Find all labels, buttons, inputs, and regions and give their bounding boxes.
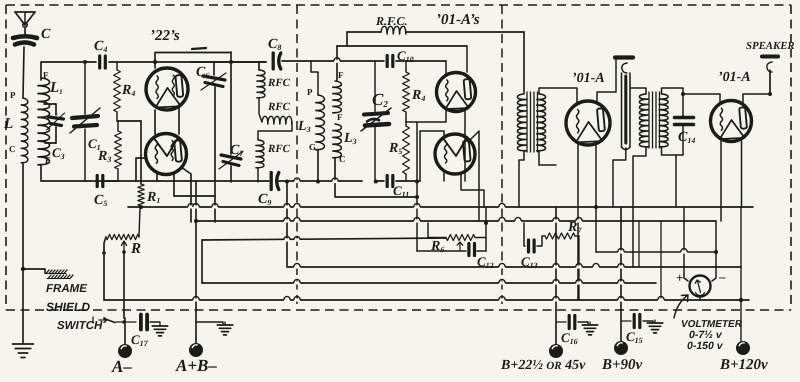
resistor R6 <box>446 235 475 252</box>
svg-text:’22’s: ’22’s <box>150 28 180 44</box>
wire vertical x202 <box>201 240 203 283</box>
tube U6 ('01-A audio2) <box>711 101 752 142</box>
transformer T1 core <box>527 92 538 152</box>
shield divider between RF and detector (dashed) <box>296 5 298 310</box>
capacitor C5 <box>97 176 103 187</box>
label C2 <box>372 90 388 109</box>
capacitor C8 <box>273 53 281 69</box>
shield bottom (dashed) <box>6 309 791 311</box>
wire plate bus to C8 <box>190 61 266 63</box>
wire C2 connections <box>374 61 376 181</box>
label RFC1 <box>267 77 291 89</box>
tube U1 ('22 #1) <box>146 68 188 110</box>
label 0-150v <box>687 340 724 352</box>
wire L1 bottom <box>41 165 86 181</box>
svg-text:C: C <box>339 154 346 164</box>
phone plug P1 <box>615 58 633 150</box>
label L3 (primary) <box>297 119 311 134</box>
coil L3 secondary upper <box>333 81 342 113</box>
rf choke RFC3 <box>256 122 292 182</box>
transformer T2 core <box>649 92 660 148</box>
ground (C17) <box>152 323 167 336</box>
wire R wiper down <box>123 252 125 318</box>
resistor R4 <box>114 62 121 121</box>
terminal A+B- <box>189 343 203 357</box>
wire C12 rail <box>440 207 488 251</box>
capacitor C15 <box>621 315 640 328</box>
label R6 <box>430 239 444 254</box>
label C7 <box>230 143 244 158</box>
wire speaker hot <box>769 70 771 94</box>
terminal B+22 <box>549 344 563 358</box>
label R.F.C. (top) <box>375 14 407 28</box>
svg-text:RFC: RFC <box>267 77 291 89</box>
potentiometer R <box>106 208 140 240</box>
label FRAME <box>46 283 87 295</box>
junction B+120/bus G <box>739 298 743 302</box>
ground (C15) <box>647 320 662 333</box>
ground (C16) <box>582 322 597 335</box>
rf choke RFC4 (top) <box>381 26 406 34</box>
capacitor C10 <box>387 56 393 67</box>
wire R3 bottom to C5 bus <box>117 180 119 182</box>
resistor R1 <box>138 184 144 209</box>
label '01-A's <box>436 12 480 28</box>
capacitor C17 <box>141 315 147 330</box>
wire C to coil L <box>23 47 24 98</box>
shield border top (dashed) <box>6 4 791 6</box>
wire C15 ground <box>643 321 653 322</box>
label B+22.5 or 45v <box>500 358 586 373</box>
voltmeter M1 <box>690 276 711 297</box>
svg-text:C: C <box>9 144 16 154</box>
ground (A+B-) <box>217 322 232 335</box>
capacitor C2 (variable) <box>361 108 391 131</box>
label R4 <box>121 83 135 98</box>
label L1 <box>49 80 63 96</box>
wire C13 left lead <box>524 223 528 246</box>
capacitor C11 <box>387 176 393 187</box>
label R3 <box>97 149 111 164</box>
svg-text:F: F <box>338 70 344 80</box>
wire U5 connections <box>539 88 616 300</box>
wire A+B- drop <box>195 181 197 344</box>
terminal B+90 <box>614 341 628 355</box>
transformer T1 secondary <box>537 94 546 151</box>
shield border right (dashed) <box>790 5 792 310</box>
potentiometer R arrow <box>121 241 126 254</box>
label F (L3 sec mid) <box>337 112 343 122</box>
wire C6 bottom link <box>174 195 215 197</box>
rf choke RFC1 <box>257 62 265 98</box>
wire T2 connections <box>630 88 685 267</box>
svg-text:P: P <box>10 90 16 100</box>
label 0-7.5v <box>689 329 723 341</box>
svg-text:P: P <box>307 87 313 97</box>
wire drop x621 (B+90) <box>620 207 622 341</box>
wire C11 bus <box>375 180 420 182</box>
wire L1 top to bus <box>41 62 84 80</box>
label SWITCH <box>57 320 103 332</box>
label '22's <box>150 28 206 49</box>
capacitor C (antenna) <box>13 36 37 44</box>
label C4 <box>94 39 107 54</box>
rf choke RFC2 (horizontal) <box>259 98 292 124</box>
svg-text:B+22½ OR 45v: B+22½ OR 45v <box>500 358 586 373</box>
svg-text:F: F <box>337 112 343 122</box>
wire antenna to C <box>24 27 26 34</box>
coil L3 primary <box>316 95 325 150</box>
wire tube U1 connections <box>117 53 231 185</box>
svg-text:SWITCH: SWITCH <box>57 320 103 332</box>
label C (L3 bottom) <box>339 154 346 164</box>
shield divider between detector and audio (dashed) <box>501 5 503 310</box>
capacitor C7 (variable) <box>219 52 242 182</box>
wire bus D (y267) <box>288 266 741 268</box>
wire voltmeter bottom link <box>699 297 701 300</box>
svg-text:–: – <box>718 269 726 284</box>
wire antenna ground column <box>22 269 24 342</box>
tube U2 ('22 #2) <box>146 134 187 175</box>
label C12 <box>477 254 494 270</box>
label C5 <box>94 193 107 208</box>
label + (voltmeter) <box>676 270 683 285</box>
wire C14 connections <box>676 94 683 155</box>
wire bus B (y221) <box>194 219 716 223</box>
label A+B- <box>175 356 217 375</box>
label P (L3) <box>307 87 313 97</box>
wire drop x741 (B+120) <box>740 207 742 341</box>
switch S1 <box>104 319 136 324</box>
capacitor C13 <box>529 240 535 252</box>
terminal B+120 <box>736 341 750 355</box>
label F (L1 top) <box>43 70 49 80</box>
svg-text:A+B–: A+B– <box>175 356 217 375</box>
label C8 <box>268 37 281 52</box>
wire hop bumps <box>188 58 687 300</box>
capacitor C9 <box>271 173 279 190</box>
coil L <box>21 98 28 163</box>
svg-text:L: L <box>3 116 13 132</box>
wire L to ground bus <box>22 163 24 269</box>
label VOLTMETER <box>681 319 743 330</box>
capacitor C3 (variable) <box>47 104 65 143</box>
wire C3 <box>44 104 56 143</box>
svg-text:’01-A: ’01-A <box>718 70 751 85</box>
svg-text:F: F <box>45 155 51 165</box>
label '01-A (tube6) <box>718 70 751 85</box>
wire C8 right <box>282 60 311 62</box>
shield border left (dashed) <box>5 5 7 310</box>
label C6 <box>196 65 209 80</box>
svg-text:A–: A– <box>111 357 132 376</box>
svg-text:B+120v: B+120v <box>719 357 768 373</box>
wire U3 connections <box>406 46 467 181</box>
label F (L3 sec top) <box>338 70 344 80</box>
wire plug1 to bus <box>613 60 626 207</box>
wire grid return bus y181 <box>86 180 340 182</box>
label C15 <box>626 329 643 345</box>
transformer T1 primary <box>517 94 526 151</box>
wire drop x639 <box>638 221 640 267</box>
label A- <box>111 357 132 376</box>
wire vertical x288 (C9 drop) <box>286 181 288 267</box>
svg-text:0-150 v: 0-150 v <box>687 340 724 352</box>
coil L3 secondary lower <box>333 124 342 158</box>
svg-text:C: C <box>41 27 51 42</box>
label C17 <box>131 332 149 348</box>
capacitor C6 (variable) <box>201 62 226 196</box>
tube U5 ('01-A audio1) <box>566 101 610 145</box>
wire drop x579 <box>578 236 580 300</box>
terminal A- <box>118 344 132 358</box>
wire A+B- ground stub <box>196 322 223 324</box>
resistor R3 <box>115 121 122 181</box>
label L3 (secondary) <box>343 131 357 146</box>
frame ground symbol <box>45 270 73 279</box>
label RFC2 <box>267 101 291 113</box>
svg-text:F: F <box>43 70 49 80</box>
label C <box>41 27 51 42</box>
capacitor C14 <box>675 118 694 125</box>
label R <box>130 241 141 257</box>
transformer T2 primary <box>639 94 648 147</box>
ground (antenna) <box>13 341 34 358</box>
junction dots <box>83 60 419 199</box>
resistor R7 <box>545 233 575 239</box>
voltmeter pointer arrow <box>674 295 688 318</box>
svg-text:R: R <box>130 241 141 257</box>
label RFC3 <box>267 143 291 155</box>
svg-text:’01-A’s: ’01-A’s <box>436 12 480 28</box>
resistor R5 <box>403 120 410 181</box>
label C3 <box>52 145 65 161</box>
label C10 <box>397 48 414 64</box>
wire top rfc bus <box>347 32 524 93</box>
svg-text:G: G <box>309 142 316 152</box>
coil L1 <box>38 78 50 165</box>
wire detector input bus <box>311 61 318 95</box>
label C13 <box>521 254 538 270</box>
wire R6 left lead <box>428 223 446 238</box>
capacitor C16 <box>556 316 575 329</box>
speaker jack <box>762 57 778 93</box>
label SHIELD <box>46 300 90 314</box>
svg-text:FRAME: FRAME <box>46 283 87 295</box>
wire drop x556 (B+22) <box>555 207 557 344</box>
capacitor C1 (variable) <box>70 62 100 181</box>
wire tube U2 connections <box>136 158 215 222</box>
label C (L bottom) <box>9 144 16 154</box>
label F (L1 bottom) <box>45 155 51 165</box>
label R4b <box>411 88 425 103</box>
wire A- column <box>124 318 126 344</box>
label C14 <box>678 130 695 145</box>
wire voltmeter right <box>712 221 718 281</box>
svg-text:+: + <box>676 270 683 285</box>
wire U6 connections <box>683 92 772 221</box>
wire bus A (y207) <box>128 206 753 208</box>
svg-text:SPEAKER: SPEAKER <box>746 40 795 52</box>
label R7 <box>567 220 582 235</box>
svg-text:B+90v: B+90v <box>601 357 643 373</box>
wire drop x661 <box>660 221 662 300</box>
label L <box>3 116 13 132</box>
svg-text:SHIELD: SHIELD <box>46 300 90 314</box>
wire frame link <box>23 269 45 273</box>
label C11 <box>393 183 409 199</box>
resistor R4b <box>403 61 410 120</box>
label R1 <box>146 190 160 205</box>
label G (L3) <box>309 142 316 152</box>
wire C16 ground <box>578 322 588 324</box>
label '01-A (tube5) <box>572 71 605 86</box>
tube U4 ('01-A amp1) <box>435 134 475 174</box>
wire C13/R7 links <box>537 236 579 246</box>
wire bus F (y300) <box>104 299 749 301</box>
wire second top bus <box>337 46 467 81</box>
wire bus C (y240) <box>202 238 446 240</box>
label R5 <box>388 141 402 156</box>
label SPEAKER <box>746 40 795 52</box>
switch arrow <box>93 317 107 323</box>
junction frame <box>21 267 25 271</box>
wire top bus RF section <box>84 61 266 63</box>
capacitor C4 <box>100 56 106 68</box>
wire bus y250 (right) <box>596 251 716 253</box>
label C9 <box>258 192 271 207</box>
svg-text:RFC: RFC <box>267 101 291 113</box>
label C1 <box>88 136 101 152</box>
wire U4 connections <box>420 131 484 221</box>
svg-text:’01-A: ’01-A <box>572 71 605 86</box>
antenna <box>15 12 35 27</box>
wire vertical x417 <box>415 122 440 251</box>
capacitor C12 <box>469 244 475 256</box>
wire C10 bus <box>311 60 446 62</box>
label B+90v <box>601 357 643 373</box>
wire C17 to ground <box>150 321 160 323</box>
transformer T2 secondary <box>659 94 668 147</box>
wire L3 bottom <box>318 150 417 197</box>
tube U3 ('01-A det) <box>437 73 476 112</box>
svg-text:RFC: RFC <box>267 143 291 155</box>
wire T1 top/bottom <box>519 151 556 207</box>
label P (L primary) <box>10 90 16 100</box>
label C16 <box>561 330 578 346</box>
wire R left end down <box>102 237 106 300</box>
label - (voltmeter) <box>718 269 726 284</box>
wire voltmeter left <box>684 207 688 281</box>
label B+120v <box>719 357 768 373</box>
wire bus E (y283) <box>202 282 656 284</box>
